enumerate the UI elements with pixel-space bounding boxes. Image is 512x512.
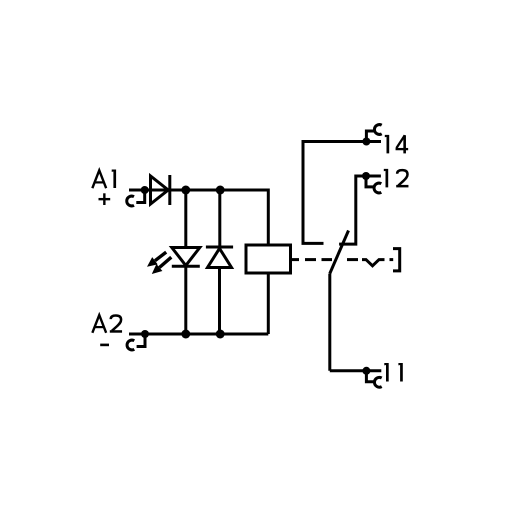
wire coil bottom — [267, 273, 270, 334]
terminal clamp 11 — [362, 367, 381, 387]
label A2 — [92, 315, 106, 333]
wire A1 top rail — [129, 190, 268, 245]
label 12 — [384, 169, 388, 188]
wire LED branch upper — [184, 190, 187, 248]
wire contact 14 branch — [303, 142, 381, 244]
switch lever — [330, 231, 349, 274]
node: junction dot diode branch / bottom — [216, 330, 225, 339]
terminal clamp 12 — [362, 172, 381, 193]
actuator bracket — [393, 249, 400, 271]
node: junction dot diode branch / top — [216, 186, 225, 195]
label 11 — [384, 363, 388, 382]
terminal clamp A1 — [127, 186, 149, 206]
wire LED branch lower — [184, 266, 187, 334]
terminal clamp A2 — [127, 330, 149, 350]
wire contact 12 branch — [339, 176, 381, 244]
LED arrow 2 — [152, 257, 172, 274]
wire diode branch upper — [218, 190, 221, 247]
wire common pole — [328, 274, 331, 371]
mechanical link dashed — [291, 260, 394, 266]
node: junction dot LED branch / top — [181, 186, 190, 195]
diode D3 (suppression, cathode up) — [206, 247, 233, 268]
terminal clamp 14 — [362, 125, 381, 146]
label + — [99, 193, 111, 205]
wire contact 11 branch — [330, 369, 382, 372]
label - — [100, 344, 109, 347]
node: junction dot LED branch / bottom — [181, 330, 190, 339]
wire A2 bottom rail — [129, 333, 268, 336]
label 14 — [385, 135, 389, 154]
label A1 — [92, 170, 106, 188]
LED arrow 1 — [147, 252, 166, 267]
diode D1 — [151, 175, 170, 205]
relay coil K1 — [246, 245, 291, 273]
LED D2 — [172, 248, 200, 267]
wire diode branch lower — [218, 268, 221, 335]
